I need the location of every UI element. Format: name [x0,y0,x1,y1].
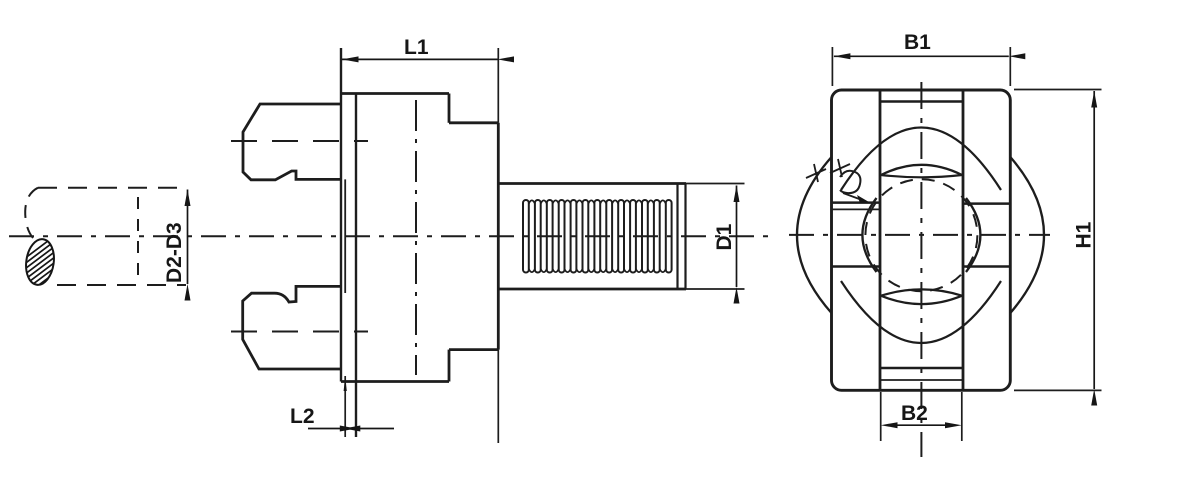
dimension L1 line [342,58,498,60]
shank thread serration [523,200,672,273]
B1 extension lines [832,47,1010,86]
body right face [497,123,500,350]
upper clamp center line [231,140,368,142]
upper clamp outline [243,104,341,180]
B2 right arrow [945,422,962,428]
H1 extension lines [1014,90,1102,391]
hatched section ellipse on stock bar [0,221,65,349]
seat top line left lower [832,208,881,210]
body vertical center line [415,100,417,375]
shank top extension line [686,183,745,185]
right view horizontal center line [789,234,1050,236]
slot bottom inner line 2 [880,379,963,381]
dimension H1 line [1093,91,1095,389]
L1 right extension line [497,48,499,443]
slot top inner line [880,100,963,102]
lower clamp outline [243,286,341,369]
body left face / L1 left extension line [340,48,342,382]
svg-text:L1: L1 [404,36,429,59]
solid circle arc left [862,198,876,272]
dimension L2 left leader [308,428,344,430]
seat top line right [963,202,1010,205]
flange inner face line between clamps [344,179,346,293]
slot left vertical line [879,90,882,390]
svg-text:B1: B1 [904,31,931,54]
body bottom edge [341,380,449,383]
B2 extension lines [881,392,962,441]
chamfer detail leader arrow [843,193,862,200]
svg-text:L2: L2 [290,405,315,428]
dimension D2-D3 line [187,190,189,285]
bottom lens lower arc [881,296,962,304]
slot bottom inner line 1 [880,367,963,370]
right view body outline rounded rect [832,90,1011,390]
chamfer detail tick 1 [806,164,826,182]
dashed shank circle [865,179,977,291]
flange right face [355,94,357,438]
svg-text:D1: D1 [713,223,736,250]
big top arc [841,128,1001,191]
body step bottom vertical [448,350,451,382]
dimension L2 right leader [356,428,394,430]
dashed stock bar bottom line [57,284,186,286]
top lens lower arc [881,175,962,177]
shank bottom line [498,288,686,291]
right view vertical center line [920,82,922,457]
solid circle arc right [966,198,980,272]
B2 left arrow [881,422,898,428]
shank thread crest scallops [529,200,666,272]
slot right vertical line [962,90,965,390]
body step top vertical [448,94,451,123]
svg-text:H1: H1 [1073,221,1096,248]
body top right edge [449,121,498,124]
lower clamp center line [231,331,368,333]
dashed stock bar end arc [25,188,38,238]
seat bottom line right [963,265,1010,267]
svg-text:D2-D3: D2-D3 [163,222,186,283]
bottom lens upper arc [881,289,962,295]
right boss arc [1010,157,1044,313]
svg-text:B2: B2 [901,402,928,425]
dashed stock bar top line [38,187,186,189]
main horizontal center line (left view) [9,235,768,237]
dimension B1 line [834,55,1009,57]
top lens upper arc [881,165,962,175]
flange inner face extension to L2 [344,376,346,437]
dashed stock bar inner vertical line [137,197,139,281]
shank collar line 2 [684,184,686,290]
shank collar line 1 [676,184,678,290]
body outline top edge [341,92,449,95]
dimension D1 line [736,186,738,288]
left boss arc [797,157,832,313]
seat top line left [832,201,881,204]
shank bottom extension line [686,288,745,290]
chamfer detail tick 2 [830,159,850,177]
seat bottom line left [832,265,881,267]
body bottom right edge [449,348,498,351]
big bottom arc [841,281,1001,343]
chamfer detail small arc [840,171,860,193]
shank top line [498,182,686,185]
dimension B2 line [896,424,947,426]
